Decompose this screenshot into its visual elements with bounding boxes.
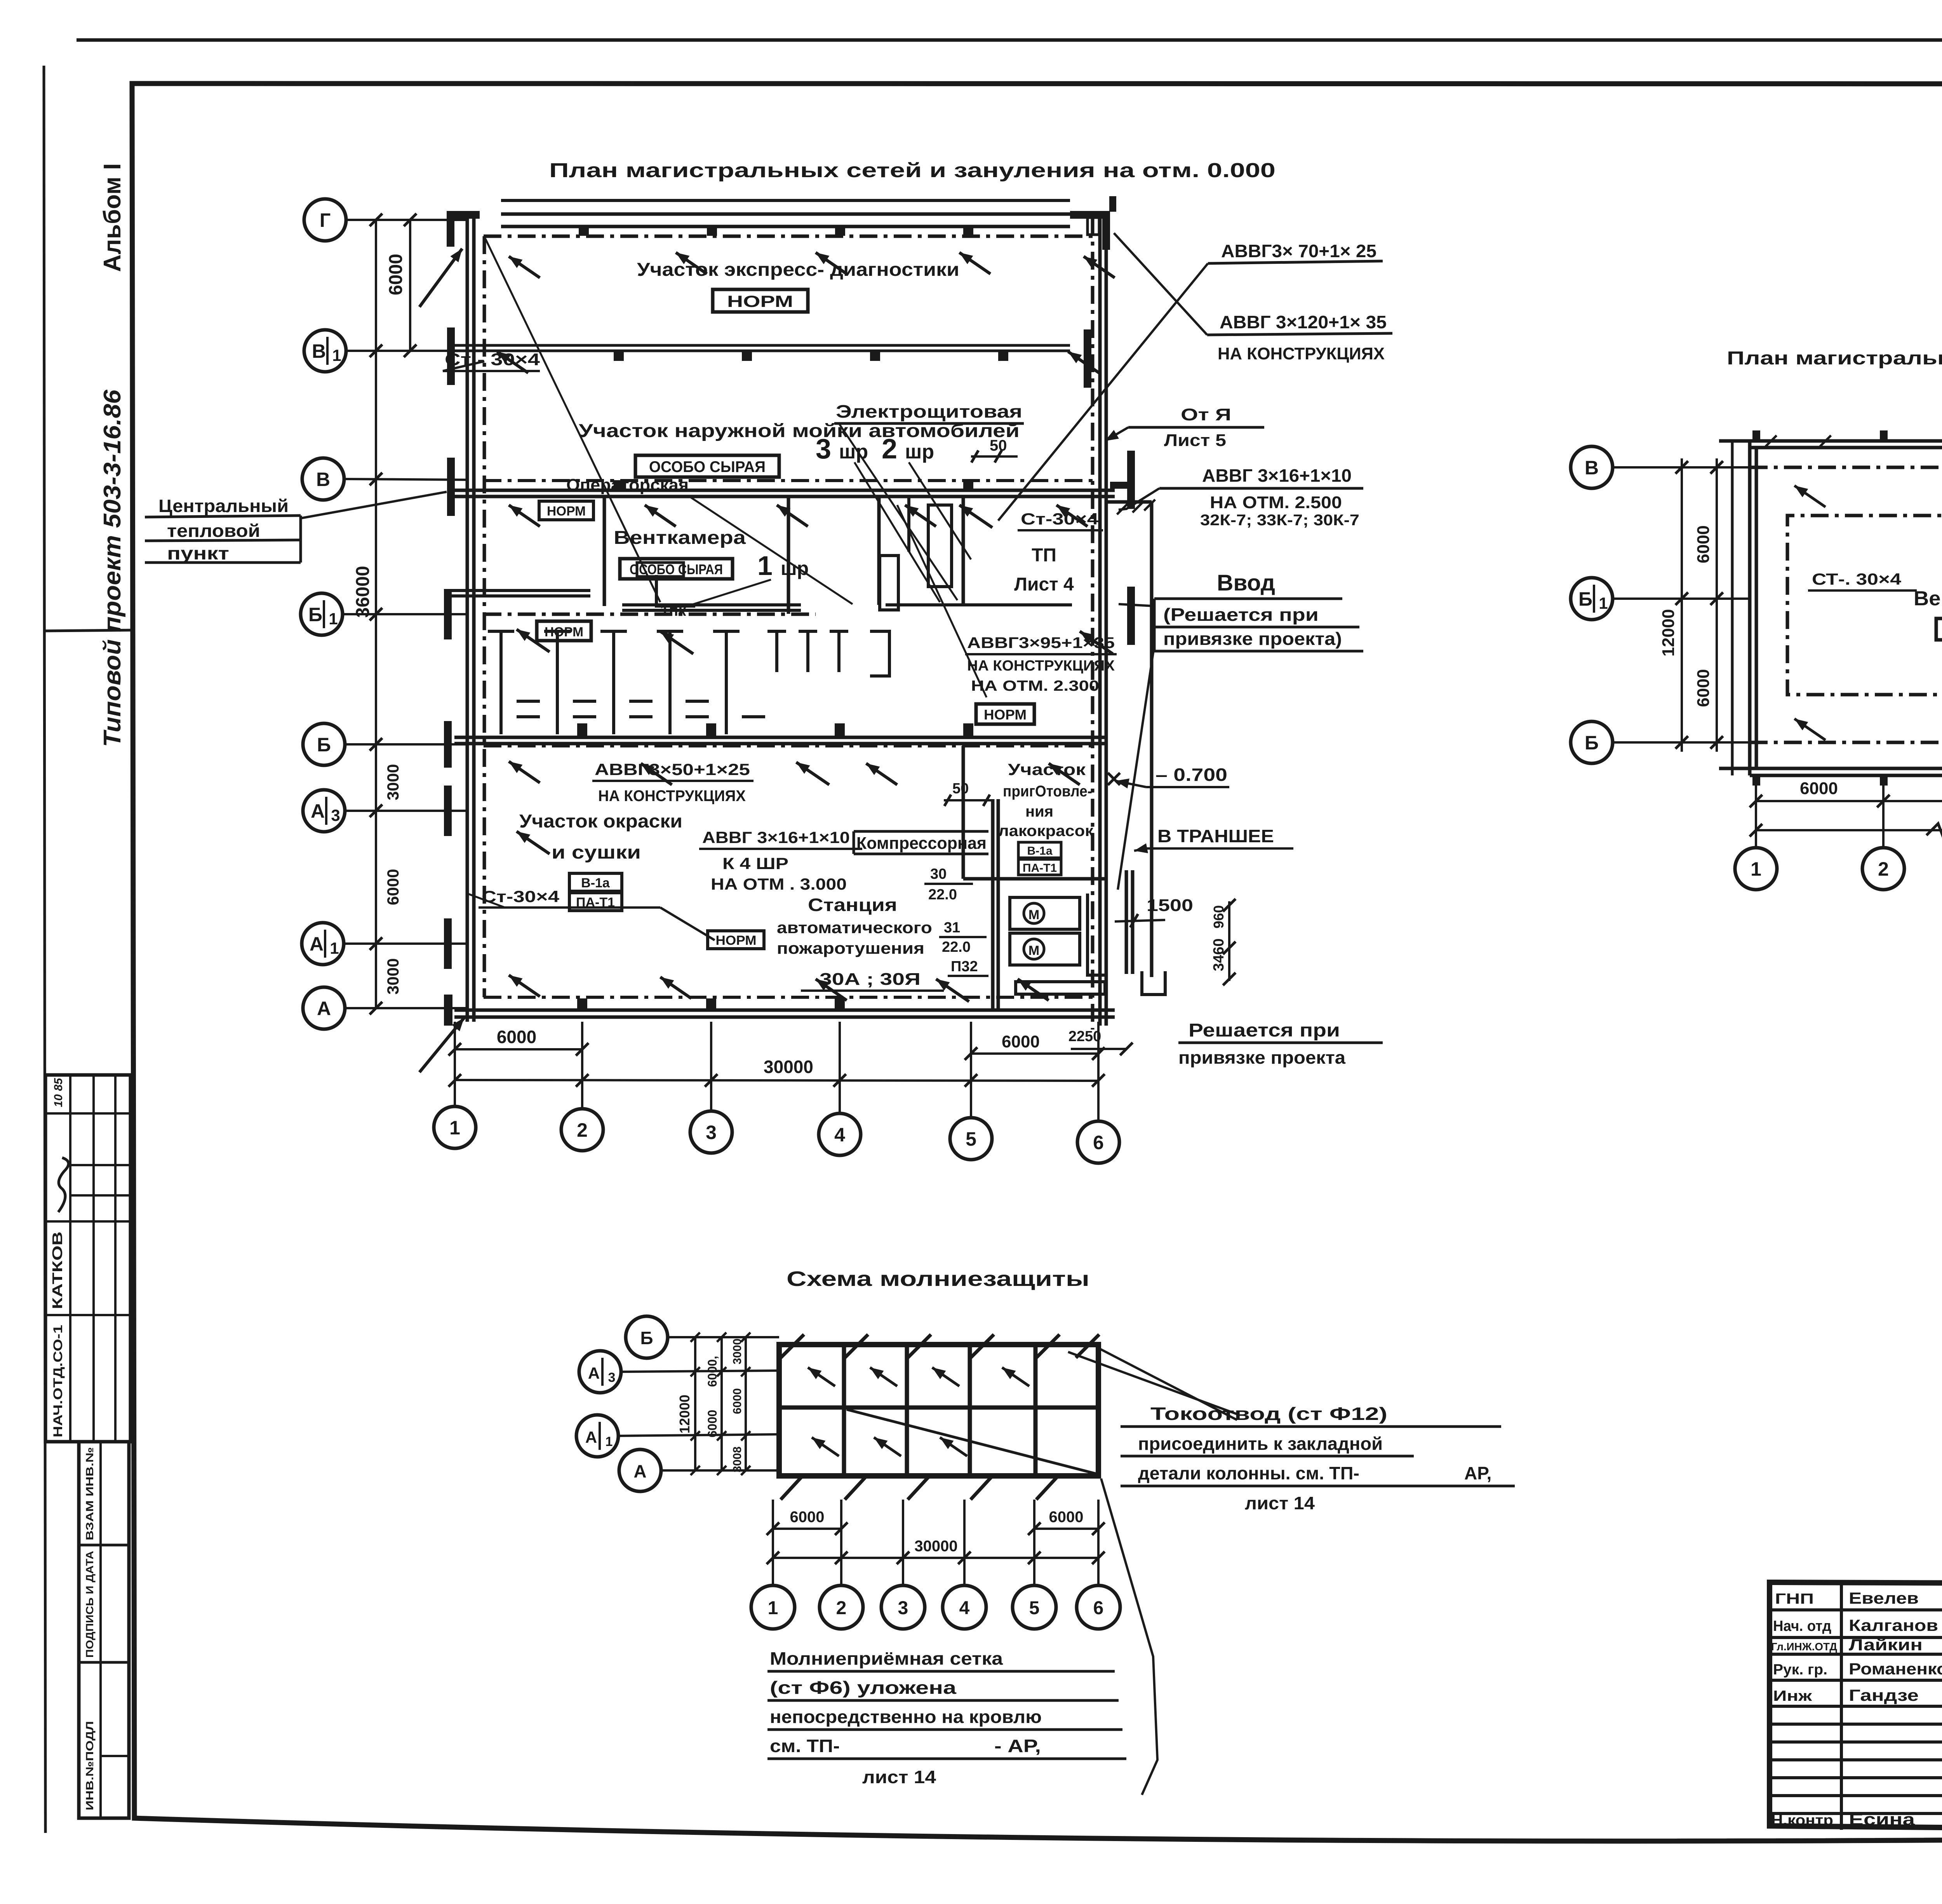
lp bottom circle 1 (751, 1585, 795, 1629)
svg-text:32К-7; 33К-7; 30К-7: 32К-7; 33К-7; 30К-7 (1200, 512, 1359, 529)
svg-text:6000: 6000 (384, 869, 402, 905)
kompressornaya box lines (854, 830, 988, 833)
svg-text:1: 1 (757, 550, 773, 581)
svg-text:6000: 6000 (1694, 669, 1713, 707)
left dim ticks (370, 214, 383, 226)
svg-text:6000: 6000 (705, 1410, 719, 1437)
svg-text:1: 1 (449, 1117, 460, 1139)
axis leader A1 (345, 942, 467, 945)
main plan corner arrow top left (419, 249, 462, 307)
lp bottom circle 3 (881, 1585, 925, 1629)
svg-text:непосредственно на кровлю: непосредственно на кровлю (770, 1707, 1042, 1727)
lp axis leader A (661, 1469, 779, 1472)
svg-text:Гл.ИНЖ.ОТД: Гл.ИНЖ.ОТД (1771, 1641, 1837, 1653)
svg-text:22.0: 22.0 (942, 939, 971, 955)
svg-text:12000: 12000 (677, 1395, 693, 1434)
svg-text:50: 50 (990, 437, 1007, 454)
svg-text:6000,: 6000, (705, 1356, 719, 1387)
svg-text:3: 3 (331, 806, 340, 824)
leader diag operatorskaya (689, 496, 853, 604)
svg-text:М: М (1028, 908, 1039, 922)
leader diag 1 (486, 239, 660, 602)
sheet trim line top (77, 38, 1942, 42)
column tab B1 left (444, 589, 452, 639)
wall ticks under V1 wall (614, 352, 624, 361)
osobo syraya box 2 (620, 559, 733, 579)
AVVG3x95 underline (965, 653, 1117, 655)
rp axis circle V (1571, 446, 1613, 488)
electro room wall left (877, 496, 881, 605)
bottom wall axis A (454, 1009, 1115, 1012)
svg-text:ТП: ТП (1032, 545, 1056, 566)
extra arrows main plan (517, 629, 550, 652)
svg-text:6000: 6000 (1800, 779, 1838, 798)
svg-text:План магистральных сетей и зан: План магистральных сетей и занулен-ия на… (1727, 348, 1942, 369)
axis leader G (348, 219, 467, 221)
svg-text:Участок окраски: Участок окраски (519, 811, 682, 832)
leader diag 3shr (854, 462, 940, 602)
svg-text:3008: 3008 (731, 1446, 744, 1472)
svg-text:В: В (316, 469, 330, 490)
axis circle V (302, 458, 344, 500)
title block signature columns (1840, 1582, 1843, 1830)
svg-text:Операторская: Операторская (566, 476, 689, 495)
lp axis leader A3 (621, 1371, 779, 1372)
svg-text:привязке проекта): привязке проекта) (1163, 629, 1342, 649)
main plan corner arrow bottom left (419, 1018, 464, 1072)
lp grid outer (779, 1345, 1098, 1476)
svg-text:НА ОТМ. 2.500: НА ОТМ. 2.500 (1210, 493, 1342, 512)
svg-text:36000: 36000 (353, 566, 373, 618)
vvod leader 2 (1118, 645, 1154, 890)
wall ticks above V wall (614, 480, 624, 490)
rp building bottom wall (1719, 767, 1942, 770)
svg-text:3000: 3000 (731, 1338, 744, 1364)
svg-text:2: 2 (882, 434, 897, 465)
svg-text:5: 5 (966, 1128, 976, 1150)
svg-text:А: А (310, 933, 324, 955)
right plan top tick marks (1766, 435, 1777, 446)
ventkamera wall right (787, 496, 790, 614)
lp dim line 30000 (773, 1557, 1098, 1559)
svg-text:присоединить к закладной: присоединить к закладной (1138, 1434, 1383, 1454)
svg-text:Участок: Участок (1008, 760, 1086, 779)
trench spout (1142, 971, 1165, 995)
shchit box 2 (880, 556, 898, 610)
lp bottom stems (772, 1500, 774, 1585)
right wall axis 6 (1098, 213, 1102, 1026)
svg-text:В: В (1585, 457, 1599, 479)
svg-text:А: А (585, 1428, 597, 1446)
svg-text:2250: 2250 (1068, 1028, 1102, 1045)
axis B1 dashdot (484, 613, 816, 616)
svg-text:Г: Г (320, 209, 331, 231)
axis G dashdot (484, 235, 1099, 238)
svg-text:ПА-Т1: ПА-Т1 (1023, 862, 1057, 874)
top wall axis G (501, 213, 1070, 216)
svg-text:31: 31 (944, 920, 960, 936)
svg-text:Лист 5: Лист 5 (1164, 431, 1226, 450)
svg-text:4: 4 (834, 1124, 845, 1146)
left stamp upper verticals (69, 1075, 71, 1442)
svg-text:3000: 3000 (384, 764, 402, 800)
svg-text:Н.контр: Н.контр (1771, 1812, 1833, 1829)
AVVG 3x120 underline (1207, 333, 1392, 335)
norm box operatorskaya (539, 501, 593, 520)
note underline 1 (145, 516, 301, 517)
column tab A corner (444, 995, 452, 1026)
axis V1 wall (454, 344, 1070, 347)
x mark at wall (1108, 773, 1120, 785)
column ticks above B wall (577, 723, 587, 736)
svg-text:Б: Б (308, 604, 322, 625)
lp axis circle A (619, 1449, 661, 1491)
svg-text:50: 50 (952, 780, 969, 797)
lp molnie underline (767, 1670, 1115, 1673)
svg-text:В-1а: В-1а (581, 876, 610, 890)
svg-text:пожаротушения: пожаротушения (777, 939, 924, 957)
svg-text:6000: 6000 (731, 1388, 744, 1414)
top wall upper band (501, 199, 1070, 202)
axis stems bottom (454, 1022, 456, 1105)
axis B1 wall segment 1 (447, 589, 590, 592)
wall ticks under top wall (579, 226, 589, 236)
svg-text:3: 3 (816, 434, 831, 465)
bottom circle 2 (561, 1109, 603, 1151)
svg-text:АВВГ3×50+1×25: АВВГ3×50+1×25 (595, 760, 750, 779)
rp bottom circle 2 (1862, 848, 1904, 890)
lp axis leader B (668, 1336, 779, 1338)
svg-text:12000: 12000 (1659, 609, 1678, 657)
axis circle B1 (301, 593, 343, 635)
svg-text:НАЧ.ОТД.СО-1: НАЧ.ОТД.СО-1 (51, 1325, 65, 1437)
column tab V left (447, 458, 455, 516)
lp top slashes (781, 1334, 804, 1358)
note underline 3 (145, 561, 301, 564)
svg-text:ния: ния (1025, 803, 1053, 820)
v transheye leader (1134, 848, 1146, 851)
svg-text:тепловой: тепловой (167, 521, 260, 541)
rp bottom dim line 2 (1756, 829, 1942, 831)
motor box 1 (1010, 897, 1080, 929)
svg-text:шр: шр (781, 557, 809, 579)
minus 0700 underline (1146, 786, 1229, 788)
30A underline (801, 989, 944, 992)
rp break symbol bottom (1926, 824, 1942, 839)
svg-text:30000: 30000 (914, 1538, 957, 1555)
left stamp lower rows (79, 1544, 129, 1547)
lp prisoedinit underline (1121, 1455, 1414, 1458)
small wall hook 1PK (656, 575, 695, 606)
axis leader A (346, 1007, 467, 1009)
svg-text:30: 30 (930, 866, 947, 882)
axis circle A1 (302, 923, 344, 965)
right wall bracket at V (1110, 482, 1128, 489)
axis V wall (454, 489, 1115, 492)
norm box mid (976, 704, 1034, 724)
svg-text:В: В (312, 340, 326, 362)
svg-text:4: 4 (959, 1598, 970, 1618)
svg-text:А: А (311, 800, 325, 822)
svg-text:лист 14: лист 14 (1245, 1493, 1315, 1513)
bottom dim line 30000 (455, 1080, 1098, 1081)
leader diag 1shr (687, 580, 771, 606)
ot Ya leader (1105, 427, 1128, 441)
svg-text:3460: 3460 (1211, 938, 1227, 971)
AVVG 3x16 underline (699, 848, 862, 850)
svg-text:лакокрасок: лакокрасок (998, 822, 1094, 840)
cross marks at wall entry (1117, 503, 1128, 514)
svg-text:Станция: Станция (808, 895, 897, 915)
svg-text:Центральный: Центральный (158, 496, 289, 516)
svg-text:Участок экспресс- диагностик: Участок экспресс- диагностики (637, 260, 959, 280)
svg-text:Молниеприёмная сетка: Молниеприёмная сетка (770, 1648, 1003, 1669)
rp building top wall (1719, 439, 1942, 443)
svg-text:А: А (633, 1461, 646, 1481)
axis B1 wall segment 2 (622, 603, 801, 606)
svg-text:30000: 30000 (764, 1057, 813, 1077)
axis circle A (303, 987, 345, 1029)
svg-text:АР,: АР, (1464, 1463, 1491, 1483)
ot Ya underline (1128, 426, 1264, 429)
svg-text:– 0.700: – 0.700 (1155, 765, 1227, 785)
lp dim verticals (694, 1337, 696, 1470)
axis circle G (304, 199, 346, 241)
bottom dim 2250 (1071, 1048, 1126, 1050)
svg-text:Решается при: Решается при (1189, 1020, 1340, 1041)
axis leader B1 (344, 613, 467, 615)
v transheye underline (1146, 847, 1293, 850)
stall bottom caps row2 (517, 715, 540, 718)
svg-text:Б: Б (317, 734, 331, 756)
svg-text:6000: 6000 (1002, 1032, 1040, 1051)
reshaetsya underline (1178, 1042, 1383, 1044)
svg-text:1: 1 (1751, 858, 1761, 880)
svg-text:НА КОНСТРУКЦИЯХ: НА КОНСТРУКЦИЯХ (598, 787, 746, 805)
dim 1500 line (1115, 920, 1165, 922)
lp arrows inside grid (808, 1367, 835, 1386)
axis circle A3 (303, 790, 345, 832)
grounding arrows set (509, 256, 540, 278)
motor circle 1 (1024, 903, 1044, 923)
vvod box mid line (1154, 626, 1359, 629)
svg-text:Лайкин: Лайкин (1849, 1636, 1923, 1654)
column tab B1 right (1127, 587, 1135, 645)
svg-text:1: 1 (329, 610, 338, 628)
motor box 2 (1010, 933, 1080, 965)
svg-text:30А ; 30Я: 30А ; 30Я (820, 970, 921, 989)
svg-text:НОРМ: НОРМ (716, 933, 757, 948)
lp axis circle A1 (576, 1415, 618, 1457)
lp grid diagonal (847, 1409, 1098, 1474)
rp left dim line outer (1681, 458, 1683, 752)
minus 0700 leader (1115, 781, 1146, 787)
left wall axis 1 (466, 213, 469, 1022)
svg-text:шр: шр (905, 441, 934, 463)
svg-text:АВВГ3× 70+1× 25: АВВГ3× 70+1× 25 (1221, 241, 1376, 261)
rp axis leader B1 (1614, 598, 1750, 600)
bottom circle 4 (819, 1113, 861, 1155)
svg-text:автоматического: автоматического (777, 918, 932, 937)
left dim line inner (409, 220, 411, 351)
lakokraska horizontal wall (963, 877, 1107, 881)
box V-1a right (1018, 842, 1061, 858)
stall side wall (870, 631, 889, 676)
AVVG 3x120 leader (1114, 233, 1207, 335)
electro room inner stub (907, 496, 910, 552)
svg-text:(ст Ф6) уложена: (ст Ф6) уложена (770, 1678, 957, 1698)
svg-text:Есина: Есина (1849, 1810, 1915, 1829)
note underline 2 (145, 540, 301, 541)
motor circle 2 (1024, 939, 1044, 959)
svg-text:Электрощитовая: Электрощитовая (836, 401, 1022, 422)
axis leader V1 (348, 350, 467, 352)
svg-text:привязке проекта: привязке проекта (1178, 1047, 1345, 1068)
svg-text:От Я: От Я (1181, 405, 1231, 424)
svg-text:лист 14: лист 14 (862, 1767, 936, 1787)
svg-text:НА КОНСТРУКЦИЯХ: НА КОНСТРУКЦИЯХ (1218, 344, 1385, 363)
column tab A1 left (444, 918, 452, 969)
svg-text:В ТРАНШЕЕ: В ТРАНШЕЕ (1157, 826, 1274, 846)
external cable horizontal (1106, 500, 1152, 504)
column tab V1 left (447, 327, 455, 385)
rp dashdot loop (1787, 516, 1942, 695)
bottom circle 6 (1077, 1121, 1119, 1163)
svg-text:960: 960 (1211, 905, 1227, 928)
svg-text:П32: П32 (951, 958, 978, 975)
svg-text:22.0: 22.0 (928, 887, 957, 903)
wall ticks above A wall (577, 998, 587, 1010)
rp left dim line inner (1716, 458, 1718, 752)
rp st underline (1808, 589, 1917, 592)
lp axis circle A3 (579, 1351, 621, 1393)
svg-text:НА ОТМ . 3.000: НА ОТМ . 3.000 (711, 875, 847, 893)
stall small partitions (775, 631, 778, 672)
svg-text:Ввод: Ввод (1217, 570, 1275, 596)
svg-text:Рук. гр.: Рук. гр. (1773, 1662, 1827, 1678)
bottom dim line 5-6 (971, 1052, 1098, 1055)
svg-text:1пк: 1пк (660, 602, 686, 619)
electro room wall right (962, 496, 965, 605)
svg-text:1: 1 (1599, 594, 1608, 612)
st-30x4 low underline (479, 906, 559, 909)
AVVG3x70 leader (998, 263, 1208, 521)
sheet trim line left (44, 66, 45, 1833)
lp neposred underline (767, 1728, 1122, 1731)
electroshchitovaya underline (834, 422, 1024, 425)
svg-text:Альбом I: Альбом I (99, 163, 126, 272)
svg-text:Романенко: Романенко (1849, 1660, 1942, 1678)
svg-text:Лист 4: Лист 4 (1014, 574, 1074, 595)
column tab V1 right (1084, 329, 1091, 388)
norm box stantsiya (708, 931, 764, 949)
bottom circle 3 (690, 1111, 732, 1153)
vvod leader 1 (1119, 604, 1154, 606)
svg-text:1: 1 (606, 1434, 613, 1449)
box V-1a (569, 873, 622, 891)
svg-text:АВВГ 3×16+1×10: АВВГ 3×16+1×10 (702, 828, 850, 847)
note right bracket (299, 516, 302, 563)
rp axis leader V (1614, 466, 1750, 469)
column tab B left (444, 721, 452, 768)
svg-text:НОРМ: НОРМ (727, 292, 793, 310)
bottom circle 1 (434, 1106, 476, 1148)
rp norm box big (1936, 618, 1942, 640)
svg-text:НА ОТМ. 2.300: НА ОТМ. 2.300 (971, 678, 1099, 694)
leader diag 2shr (909, 462, 971, 559)
rp top tabs (1752, 430, 1760, 441)
st-30x4 underline leader (443, 370, 540, 372)
rp left dim ticks (1676, 461, 1688, 474)
svg-text:Компрессорная: Компрессорная (856, 834, 987, 853)
lp detali underline (1121, 1485, 1515, 1488)
svg-text:АВВГ 3×120+1× 35: АВВГ 3×120+1× 35 (1220, 312, 1387, 332)
rp axis circle B (1571, 721, 1613, 763)
axis circle B (303, 723, 345, 765)
rp axis B dashdot (1750, 741, 1942, 744)
rp left wall stem (1731, 441, 1734, 775)
rp bottom tabs (1752, 775, 1760, 786)
svg-text:5: 5 (1029, 1598, 1040, 1618)
svg-text:6: 6 (1093, 1132, 1104, 1153)
svg-text:В-1а: В-1а (1027, 845, 1052, 857)
svg-text:Б: Б (1578, 588, 1592, 610)
vvod box underline (1154, 650, 1363, 653)
svg-text:см. ТП-: см. ТП- (770, 1736, 840, 1756)
ventkamera wall left (603, 496, 606, 606)
lp bottom circle 2 (820, 1585, 863, 1629)
stall lower caps (517, 700, 540, 703)
svg-text:10 85: 10 85 (52, 1078, 65, 1107)
norm box 1 (713, 289, 808, 312)
svg-text:ПОДПИСЬ И ДАТА: ПОДПИСЬ И ДАТА (84, 1551, 96, 1658)
bottom circle 5 (950, 1118, 992, 1160)
interior vertical dashdot axis 6 (1091, 218, 1095, 1030)
st-30x4 mid underline (1018, 529, 1103, 531)
column tab V right (1127, 451, 1135, 509)
rp building left wall (1748, 441, 1752, 775)
svg-text:Б: Б (1585, 732, 1599, 754)
leader st30 low (467, 894, 505, 908)
AVVG 3x16 right underline (1159, 487, 1363, 490)
lp bottom slashes (781, 1474, 804, 1500)
svg-text:6000: 6000 (497, 1027, 536, 1047)
lakokraska divider wall (962, 746, 965, 879)
interior vertical dashdot near axis 1 (483, 236, 486, 997)
stall partitions row (499, 631, 503, 734)
lp bottom circle 6 (1077, 1585, 1120, 1629)
norm box left room (537, 621, 591, 641)
lp leader tokootvod 2 (1098, 1348, 1237, 1420)
svg-text:М: М (1028, 943, 1039, 958)
svg-text:А: А (588, 1364, 600, 1382)
svg-text:2: 2 (1878, 858, 1889, 880)
svg-text:6000: 6000 (1049, 1509, 1084, 1526)
axis B1 wall segment 3 (886, 603, 1072, 606)
left stamp signature (58, 1158, 68, 1212)
svg-text:Евелев: Евелев (1849, 1589, 1919, 1607)
svg-text:К 4 ШР: К 4 ШР (722, 854, 788, 873)
svg-text:КАТКОВ: КАТКОВ (49, 1232, 65, 1309)
box PA-T1 (569, 893, 622, 911)
svg-text:Нач. отд: Нач. отд (1773, 1618, 1831, 1634)
leader diag electro (839, 423, 957, 600)
axis circle V1 (304, 330, 346, 372)
1PK box (637, 563, 684, 577)
left stamp lower vertical (99, 1442, 102, 1818)
svg-text:3000: 3000 (384, 958, 402, 995)
left stamp table lower frame (79, 1442, 129, 1818)
